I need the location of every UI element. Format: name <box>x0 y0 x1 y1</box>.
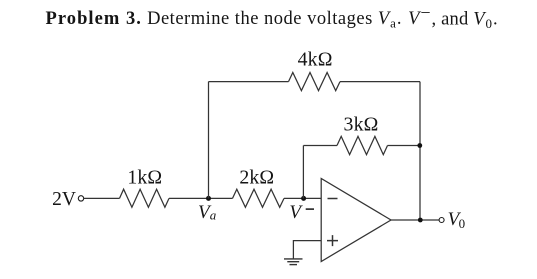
resistor 2k ohm <box>233 189 285 207</box>
svg-text:2kΩ: 2kΩ <box>239 167 274 189</box>
wire: op-amp output to terminal <box>391 219 439 221</box>
svg-text:Problem 3. Determine the node: Problem 3. Determine the node voltages V… <box>46 3 499 31</box>
resistor 3k ohm <box>337 136 388 154</box>
wire: non-inverting input to ground <box>293 241 321 259</box>
wire: right vertical from top branch down to output node <box>419 82 421 220</box>
node Va junction dot <box>206 196 211 201</box>
node V- junction dot <box>301 196 306 201</box>
wire from R2 to node V- and to op-amp inverting input <box>284 197 321 199</box>
svg-text:2V: 2V <box>52 189 76 210</box>
junction dot at 3k branch and right vertical <box>417 143 422 148</box>
terminal circle at output V0 <box>439 218 444 223</box>
svg-text:3kΩ: 3kΩ <box>344 113 379 135</box>
svg-text:a: a <box>210 208 217 223</box>
wire: 3k branch left segment <box>303 145 337 147</box>
svg-text:V: V <box>289 202 303 223</box>
resistor 4k ohm <box>289 73 341 91</box>
ground symbol <box>284 258 303 260</box>
op-amp non-inverting input plus sign <box>327 235 338 246</box>
op-amp inverting input minus sign <box>328 198 338 200</box>
svg-text:1kΩ: 1kΩ <box>127 167 162 189</box>
wire from R1 to node Va and on to R2 <box>169 197 233 199</box>
wire: top branch left segment <box>209 81 289 83</box>
resistor 1k ohm <box>120 189 170 207</box>
svg-text:0: 0 <box>459 216 466 231</box>
op-amp U1 triangle <box>321 179 391 262</box>
terminal circle at 2V source <box>78 196 83 201</box>
wire: 3k branch right segment to right vertical <box>388 145 421 147</box>
junction dot at output node <box>418 218 423 223</box>
wire: top branch right segment <box>340 81 420 83</box>
wire from 2V terminal to R1 <box>84 197 120 199</box>
wire: vertical from Va up to top feedback branch <box>208 82 210 199</box>
wire: vertical from V- node up to 3k branch <box>302 146 304 199</box>
svg-text:4kΩ: 4kΩ <box>298 49 333 71</box>
